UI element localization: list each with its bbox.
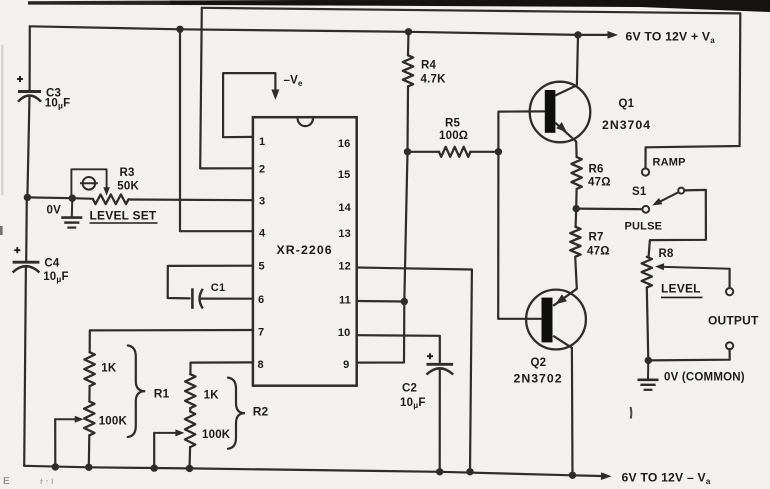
- wire: C2 to bottom rail: [439, 369, 441, 472]
- U1 pin 13 label: [338, 228, 351, 240]
- svg-text:R5: R5: [445, 118, 461, 130]
- wire: +V top rail: [30, 26, 618, 39]
- junction: R5 left: [404, 148, 411, 155]
- junction: top rail / x180 vertical: [176, 26, 183, 33]
- R2 label: [253, 405, 269, 419]
- OUTPUT label: [708, 314, 759, 328]
- U1 pin 12 label: [338, 260, 351, 272]
- U1 pin 9 label: [343, 359, 349, 371]
- junction: R5 right / base branch: [495, 148, 502, 155]
- S1 pole terminal: [642, 206, 649, 213]
- wire: left vertical (C3/C4 branch) upper: [29, 26, 31, 90]
- svg-text:PULSE: PULSE: [625, 221, 663, 233]
- R8 wiper: [655, 263, 730, 270]
- PULSE label: [625, 221, 663, 233]
- U1 pin 4 label: [259, 227, 266, 239]
- U1 pin 14 label: [338, 202, 351, 214]
- svg-text:8: 8: [258, 359, 264, 371]
- wire: R6 to node: [575, 189, 578, 209]
- wire: pin 1 to -Ve arrow: [223, 73, 279, 137]
- svg-text:Q2: Q2: [531, 357, 547, 369]
- C4 polarity +: [14, 247, 20, 253]
- svg-text:10: 10: [338, 327, 351, 339]
- R2b value label 100K: [202, 429, 231, 441]
- svg-text:100K: 100K: [99, 416, 128, 428]
- svg-text:5: 5: [259, 260, 265, 272]
- R3 label: [120, 167, 135, 179]
- scan artifact: top black bar: [28, 0, 770, 12]
- R6 label: [589, 164, 604, 176]
- junction: top rail / Q1 collector: [574, 31, 581, 38]
- terminal OUTPUT common: [726, 342, 733, 349]
- Q1 label: [619, 98, 635, 110]
- LEVEL label: [661, 282, 703, 298]
- junction: bottom rail / R2 pot tap: [151, 464, 158, 471]
- wire: -V bottom rail: [24, 466, 611, 480]
- svg-text:6: 6: [258, 294, 264, 306]
- wire: pin 11: [357, 300, 405, 303]
- resistor R3 (50K pot): [93, 195, 129, 205]
- svg-text:C4: C4: [44, 258, 60, 270]
- node -Ve label: [284, 75, 303, 89]
- svg-text:C2: C2: [402, 383, 417, 395]
- R3 pot frame: [71, 169, 110, 198]
- svg-text:1: 1: [259, 136, 265, 148]
- brace R2: [228, 378, 245, 449]
- wire: Q1 collector to top rail: [577, 35, 578, 85]
- U1 pin 8 label: [258, 359, 264, 371]
- wire: R8 bottom to common node: [647, 288, 649, 361]
- C3 label: [46, 88, 61, 100]
- svg-text:15: 15: [338, 169, 351, 181]
- junction: bottom rail / pin12 branch: [466, 468, 473, 475]
- svg-text:11: 11: [339, 294, 351, 306]
- scan artifact: bottom-left page text: [3, 476, 54, 487]
- wire: base branch up to Q1: [498, 111, 544, 151]
- svg-text:47Ω: 47Ω: [587, 246, 610, 258]
- svg-text:R7: R7: [589, 232, 604, 244]
- R4 value label: [421, 74, 447, 86]
- junction: top rail / R4: [405, 28, 412, 35]
- svg-text:100Ω: 100Ω: [439, 130, 468, 142]
- wire: Q1 emitter to R6: [575, 142, 578, 157]
- node 0V (COMMON) label: [664, 372, 745, 384]
- wire: top-right loop to RAMP: [202, 8, 741, 169]
- resistor R1b 100K (pot): [84, 401, 94, 435]
- svg-text:LEVEL SET: LEVEL SET: [90, 209, 157, 223]
- U1 pin 5 label: [259, 260, 265, 272]
- svg-text:1K: 1K: [204, 390, 220, 402]
- wire: between 1K and 100K: [88, 386, 90, 401]
- resistor R4: [403, 55, 413, 86]
- scan artifact: left edge smudge: [0, 45, 3, 235]
- U1 pin 15 label: [338, 169, 351, 181]
- svg-text:50K: 50K: [117, 180, 139, 192]
- wire: pin 5 loop to C1: [168, 266, 253, 299]
- svg-text:XR-2206: XR-2206: [277, 243, 333, 257]
- node 0V label: [47, 205, 62, 217]
- RAMP label: [653, 157, 686, 169]
- U1 pin 7 label: [258, 327, 264, 339]
- svg-text:R1: R1: [154, 387, 170, 401]
- ground (0V COMMON): [638, 360, 659, 389]
- U1 pin 6 label: [258, 294, 264, 306]
- svg-text:R6: R6: [589, 164, 604, 176]
- wire: x180 vertical to pin 4: [180, 29, 253, 231]
- Q2 label: [531, 357, 547, 369]
- junction: bottom rail / R1 branch: [85, 464, 92, 471]
- svg-text:0V: 0V: [47, 205, 62, 217]
- wire: R2 wiper to bottom rail: [153, 433, 155, 468]
- wire: C1 to pin 6: [201, 298, 253, 300]
- svg-text:2N3702: 2N3702: [514, 372, 563, 386]
- C2 polarity +: [427, 353, 433, 359]
- svg-text:R3: R3: [120, 167, 135, 179]
- svg-text:13: 13: [338, 228, 351, 240]
- Q2 part number label: [514, 372, 563, 386]
- transistor Q1 2N3704: [530, 82, 591, 143]
- R4 label: [421, 60, 437, 72]
- wire: left vertical C4 to bottom rail: [24, 267, 26, 466]
- junction: bottom rail / Q2 collector: [569, 472, 576, 479]
- svg-text:4: 4: [259, 227, 266, 239]
- svg-text:10µF: 10µF: [43, 271, 69, 284]
- R7 value label: [587, 246, 610, 258]
- wire: node to R7: [574, 209, 577, 227]
- svg-text:6V TO 12V + Va: 6V TO 12V + Va: [626, 30, 716, 46]
- R2 pot wiper: [154, 429, 184, 436]
- ground (0V at R3): [61, 198, 82, 227]
- wire: R4 to R5 node: [406, 86, 409, 151]
- junction: left rail / R3: [24, 194, 31, 201]
- resistor R5: [439, 147, 470, 157]
- R1a value label 1K: [101, 363, 117, 375]
- R1 label: [154, 387, 170, 401]
- svg-text:R4: R4: [421, 60, 437, 72]
- resistor R2a 1K: [185, 374, 195, 408]
- wire: R1 wiper to bottom rail: [54, 419, 56, 467]
- brace R1: [128, 346, 146, 438]
- Q1 part number label: [602, 118, 651, 132]
- R6 value label: [588, 177, 611, 189]
- U1 pin 2 label: [259, 164, 265, 176]
- resistor R8 (pot): [642, 257, 652, 288]
- LEVEL SET label: [90, 209, 158, 224]
- wire: pin 10 to C2: [357, 335, 440, 363]
- wire: x202 vertical to pin 2: [200, 8, 253, 169]
- capacitor C1: [192, 288, 202, 309]
- svg-text:16: 16: [338, 138, 351, 150]
- node +Va rail label: [626, 30, 716, 46]
- R1b value label 100K: [99, 416, 128, 428]
- capacitor C2: [427, 364, 454, 374]
- R3 value label: [117, 180, 139, 192]
- wire: top rail to R4: [407, 32, 410, 56]
- wire: pin 9 branch: [357, 302, 405, 363]
- svg-text:1K: 1K: [101, 363, 117, 375]
- svg-text:Q1: Q1: [619, 98, 635, 110]
- svg-text:3: 3: [259, 195, 265, 207]
- wire: R5 right lead: [470, 151, 498, 153]
- svg-text:10µF: 10µF: [400, 397, 426, 410]
- R8 label: [659, 248, 675, 260]
- junction: bottom rail / C2: [436, 468, 443, 475]
- wire: R5 left lead: [408, 151, 440, 153]
- C2 value label: [400, 397, 426, 410]
- switch S1 arm: [652, 192, 678, 205]
- svg-text:R8: R8: [659, 248, 675, 260]
- R7 label: [589, 232, 604, 244]
- wire: left vertical between C4 node and C4: [25, 197, 28, 260]
- resistor R7: [570, 227, 580, 257]
- C1 label: [211, 282, 225, 294]
- svg-text:14: 14: [338, 202, 351, 214]
- R5 label: [445, 118, 461, 130]
- C4 label: [44, 258, 60, 270]
- svg-text:S1: S1: [632, 186, 647, 198]
- svg-text:100K: 100K: [202, 429, 231, 441]
- svg-text:0V (COMMON): 0V (COMMON): [664, 372, 745, 384]
- U1 pin 1 label: [259, 136, 265, 148]
- svg-text:C1: C1: [211, 282, 225, 294]
- wire: left vertical between C3 and R3 node: [27, 96, 29, 197]
- terminal OUTPUT hot: [726, 288, 733, 295]
- junction: bottom rail / R3 pot tap: [52, 463, 59, 470]
- wire: wiper to OUTPUT hot terminal: [728, 269, 730, 289]
- junction: bottom rail / R2 branch: [186, 465, 193, 472]
- svg-text:LEVEL: LEVEL: [661, 282, 701, 296]
- capacitor C4: [13, 262, 40, 272]
- node -Va rail label: [622, 471, 711, 487]
- wire: between R2 1K and 100K: [189, 408, 191, 411]
- wire: pin 8 to R2 branch: [190, 362, 253, 374]
- U1 pin 3 label: [259, 195, 265, 207]
- svg-text:4.7K: 4.7K: [421, 74, 447, 86]
- wire: R7 to Q2 emitter: [575, 257, 577, 289]
- scan artifact: small mark below output ground: [630, 407, 633, 419]
- wire: R3 node to zigzag: [27, 197, 93, 198]
- op-amp U1 XR-2206 body: [253, 117, 357, 386]
- S1 label: [632, 186, 647, 198]
- resistor R2b 100K (pot): [185, 412, 195, 448]
- U1 pin 10 label: [338, 327, 351, 339]
- resistor R6: [571, 157, 581, 189]
- transistor Q2 2N3702: [526, 289, 586, 350]
- wire: R6/R7 node to S1 pole: [576, 208, 642, 211]
- R1 pot wiper: [55, 416, 83, 423]
- wire: Q2 collector to bottom rail: [571, 348, 574, 476]
- svg-text:2N3704: 2N3704: [602, 118, 651, 132]
- U1 pin 11 label: [339, 294, 351, 306]
- junction: R3 / ground / frame: [69, 195, 76, 202]
- R2a value label 1K: [204, 390, 220, 402]
- junction: R6/R7/S1: [573, 205, 580, 212]
- svg-text:OUTPUT: OUTPUT: [708, 314, 759, 328]
- wire: R1b to bottom rail: [88, 435, 91, 467]
- C2 label: [402, 383, 417, 395]
- wire: S1 throw to R8: [649, 190, 706, 257]
- svg-text:6V TO 12V – Va: 6V TO 12V – Va: [622, 471, 711, 485]
- svg-text:47Ω: 47Ω: [588, 177, 611, 189]
- wire: base branch down to Q2: [498, 152, 540, 319]
- svg-text:2: 2: [259, 164, 265, 176]
- svg-text:7: 7: [258, 327, 264, 339]
- wire: pin 7 to R1 branch: [90, 330, 253, 352]
- C4 value label: [43, 271, 69, 284]
- svg-text:E: E: [3, 476, 10, 484]
- junction: R8 / output common / ground: [645, 357, 652, 364]
- svg-text:RAMP: RAMP: [653, 157, 686, 169]
- C3 value label: [45, 98, 71, 111]
- svg-text:R2: R2: [253, 405, 269, 419]
- capacitor C3: [18, 92, 41, 102]
- resistor R1a 1K: [84, 352, 94, 386]
- terminal RAMP: [642, 168, 649, 175]
- U1 pin 16 label: [338, 138, 351, 150]
- wire: R4 branch down to pin 11: [404, 152, 407, 302]
- wire: OUTPUT common to node: [648, 349, 729, 361]
- svg-text:12: 12: [338, 260, 351, 272]
- wire: pin 12 to bottom rail: [357, 268, 472, 472]
- C3 polarity +: [17, 76, 23, 82]
- svg-text:t : l: t : l: [40, 477, 54, 484]
- svg-text:9: 9: [343, 359, 349, 371]
- svg-text:10µF: 10µF: [45, 98, 71, 111]
- U1 name label: [277, 243, 333, 257]
- S1 throw terminal: [678, 188, 684, 194]
- wire: R2b to bottom rail: [188, 447, 191, 468]
- junction: R4 branch / pin 11: [401, 298, 408, 305]
- R5 value label: [439, 130, 468, 142]
- wire: R3 to pin 3: [129, 198, 253, 201]
- R3 adjust symbol: [80, 177, 98, 190]
